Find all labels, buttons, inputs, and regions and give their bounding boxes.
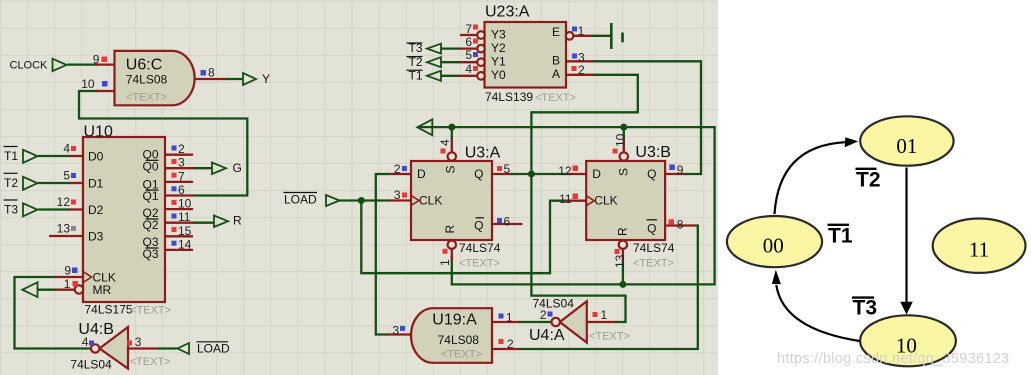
pin state square U4:B 3: [127, 341, 132, 346]
pin 2 U3:A D: [389, 173, 411, 175]
svg-text:4: 4: [465, 62, 472, 76]
pin 7 U23 Y3: [460, 34, 477, 36]
svg-text:U4:A: U4:A: [529, 327, 565, 344]
svg-text:<TEXT>: <TEXT>: [589, 331, 630, 343]
pin 9 U3:B Q: [665, 173, 684, 175]
terminal LOAD arrow (bottom): [178, 343, 190, 354]
svg-text:Y3: Y3: [491, 27, 506, 41]
pin 10 U10 Q2: [165, 208, 193, 210]
pin 5 U23 Y1: [460, 61, 477, 63]
svg-text:B: B: [552, 53, 560, 67]
svg-text:3: 3: [392, 323, 399, 337]
U23 Y2 bubble: [477, 45, 485, 53]
pin state square U3:B 12: [573, 166, 579, 172]
svg-text:Q2: Q2: [142, 218, 158, 232]
pin state square U23 4: [473, 66, 478, 71]
wire branch to U3:A S pin: [451, 127, 453, 141]
pin 3 U23 B: [567, 60, 595, 62]
wire arrow 10 to 00: [776, 285, 859, 341]
U3:B CLK edge symbol: [586, 196, 594, 206]
U23 E bubble: [566, 32, 574, 40]
wire U4:B output to U10 CLK: [15, 277, 92, 349]
svg-text:1: 1: [578, 24, 585, 38]
svg-text:74LS04: 74LS04: [70, 357, 112, 371]
terminal R arrow: [214, 216, 228, 228]
wire U10 Q1bar feedback to U6:C pin 10: [79, 91, 247, 196]
pin 2 U10 Q0: [165, 154, 193, 156]
terminal T3bar arrow: [427, 44, 441, 54]
pin 1 U3:A R: [451, 249, 453, 262]
svg-text:2: 2: [178, 142, 185, 156]
pin state square U3:A 1: [443, 249, 448, 254]
U4:A output bubble: [552, 318, 560, 326]
pin 14 U10 Q3bar: [165, 249, 193, 251]
wire net A: U23 A to U3:A Q and U4:A input: [531, 75, 637, 322]
svg-text:74LS175: 74LS175: [85, 303, 133, 317]
pin state square U10 4: [71, 146, 76, 151]
U10 MR bubble: [75, 285, 83, 293]
svg-text:14: 14: [178, 237, 192, 251]
junction node S net U3:A: [448, 124, 455, 131]
pin 8 U6:C: [195, 78, 227, 80]
svg-text:1: 1: [438, 259, 452, 266]
wire T3 to D2: [38, 208, 70, 210]
svg-text:T2: T2: [4, 176, 18, 190]
svg-text:U3:A: U3:A: [465, 145, 501, 162]
pin state square U3:A 4: [441, 149, 446, 154]
terminal LOAD arrow (mid): [326, 195, 340, 206]
svg-text:Y0: Y0: [491, 68, 506, 82]
node state 11 ellipse: [933, 219, 1026, 273]
svg-text:8: 8: [677, 218, 684, 232]
pin state square U23 7: [473, 25, 478, 30]
pin state square U23 6: [473, 39, 478, 44]
wire CLOCK to U6:C pin 9: [67, 63, 98, 65]
pin 2 U23 A: [567, 74, 595, 76]
svg-text:6: 6: [178, 183, 185, 197]
pin state square U19 2: [499, 339, 504, 344]
svg-text:<TEXT>: <TEXT>: [633, 258, 674, 270]
U4:A inverter body mirrored: [560, 301, 587, 342]
svg-text:D0: D0: [88, 149, 104, 163]
svg-text:<TEXT>: <TEXT>: [130, 305, 171, 317]
svg-text:15: 15: [178, 224, 192, 238]
pin state square U3:B 10: [613, 149, 618, 154]
terminal arrow S/R net: [417, 119, 432, 135]
svg-text:13: 13: [613, 254, 627, 268]
pin 3 U4:B input: [128, 347, 157, 349]
svg-text:R: R: [233, 214, 242, 228]
op-amp U6:C AND gate body: [115, 51, 195, 105]
pin 1 U19:A input: [492, 321, 520, 323]
svg-text:Q: Q: [647, 222, 656, 236]
pin state square U10 14: [172, 241, 177, 246]
wire U23 E to ground: [590, 35, 611, 37]
svg-text:D: D: [417, 167, 426, 181]
pin state square U10 9: [72, 268, 78, 274]
pin state square U10 7: [172, 173, 177, 178]
svg-text:4: 4: [438, 139, 452, 146]
terminal Y arrow: [243, 73, 256, 85]
svg-text:<TEXT>: <TEXT>: [441, 349, 482, 361]
pin state square U4:A 1: [593, 312, 598, 317]
svg-text:T3: T3: [4, 202, 18, 216]
svg-text:D2: D2: [88, 203, 104, 217]
wire U19:A output to U3:A D: [376, 174, 389, 335]
wire branch to U3:B R pin: [622, 261, 624, 284]
pin 13 U3:B R: [622, 249, 624, 262]
svg-text:T2: T2: [856, 169, 881, 192]
svg-text:U3:B: U3:B: [635, 144, 671, 161]
svg-text:U19:A: U19:A: [432, 312, 477, 329]
terminal G arrow: [212, 163, 226, 175]
svg-text:CLOCK: CLOCK: [10, 59, 49, 71]
wire MR terminal: [37, 289, 56, 291]
pin 1 U10 MR: [55, 289, 75, 291]
wire U23 Y0 to T1bar: [441, 75, 461, 77]
svg-text:11: 11: [559, 192, 572, 206]
ground symbol: [610, 23, 613, 49]
svg-text:6: 6: [504, 215, 511, 229]
svg-text:<TEXT>: <TEXT>: [459, 258, 500, 270]
junction node Q5/A net: [528, 171, 535, 178]
svg-text:1: 1: [64, 277, 71, 291]
svg-text:10: 10: [178, 197, 192, 211]
pin state square U10 5: [71, 173, 76, 178]
U23 Y1 bubble: [477, 58, 485, 66]
svg-text:5: 5: [465, 48, 472, 62]
pin state square U4:B 4: [89, 341, 94, 346]
U23 Y3 bubble: [477, 31, 485, 39]
U3:A S bubble: [448, 152, 456, 160]
svg-text:G: G: [233, 161, 242, 175]
pin state square U19 1: [499, 314, 504, 319]
svg-text:https://blog.csdn.net/qq_35936: https://blog.csdn.net/qq_35936123: [777, 351, 1009, 367]
terminal CLOCK arrow: [53, 59, 67, 71]
pin 7 U10 Q1: [165, 181, 193, 183]
svg-text:<TEXT>: <TEXT>: [535, 92, 576, 104]
U19:A AND gate body mirrored: [411, 308, 492, 363]
svg-text:6: 6: [465, 35, 472, 49]
pin state square U10 13: [71, 226, 76, 231]
svg-text:2: 2: [540, 308, 547, 322]
pin 6 U3:A Qbar: [492, 223, 522, 225]
svg-text:9: 9: [93, 53, 100, 67]
svg-text:74LS74: 74LS74: [459, 241, 501, 255]
pin state square U10 6: [172, 186, 177, 191]
terminal T2 arrow: [23, 177, 37, 190]
wire branch to U3:B S pin: [623, 127, 625, 141]
pin state square U10 1: [73, 281, 79, 287]
U3:A R bubble: [448, 241, 456, 249]
svg-text:T1: T1: [4, 149, 18, 163]
svg-text:10: 10: [81, 77, 95, 91]
pin state square U3:A 3: [402, 193, 407, 198]
pin 11 U10 Q2bar: [165, 222, 193, 224]
svg-text:Y2: Y2: [491, 41, 506, 55]
svg-text:74LS74: 74LS74: [633, 241, 675, 255]
svg-text:D3: D3: [88, 229, 104, 243]
pin state square U23 2: [572, 66, 577, 71]
svg-text:D: D: [592, 167, 601, 181]
pin state square U19 3: [400, 326, 405, 331]
pin state square U6:C 10: [102, 81, 108, 87]
svg-text:9: 9: [64, 264, 71, 278]
pin state square U6:C 9: [102, 57, 108, 63]
svg-text:2: 2: [394, 162, 401, 176]
svg-text:5: 5: [63, 169, 70, 183]
svg-text:74LS08: 74LS08: [438, 333, 480, 347]
pin state square U3:B 13: [615, 249, 620, 254]
svg-text:A: A: [552, 67, 560, 81]
svg-text:Q: Q: [647, 167, 656, 181]
svg-text:1: 1: [506, 311, 513, 325]
pin 15 U10 Q3: [165, 235, 193, 237]
wire net S/R: arrow terminal along S and R pins: [418, 127, 715, 284]
pin state square U10 15: [172, 227, 177, 232]
U10 74LS175 body: [83, 137, 165, 302]
svg-text:4: 4: [82, 335, 89, 349]
svg-text:E: E: [552, 25, 560, 39]
wire net B: U23 B to U3:B Q: [592, 61, 701, 174]
pin 10 U6:C: [96, 90, 115, 92]
svg-text:LOAD: LOAD: [197, 342, 230, 356]
svg-text:S: S: [444, 165, 458, 173]
junction node R net U3:B: [619, 281, 626, 288]
pin state square U6:C 8: [201, 70, 207, 76]
pin 9 U10 CLK: [55, 276, 83, 278]
svg-text:00: 00: [763, 234, 784, 258]
pin 1 U23 E: [573, 35, 592, 37]
svg-text:MR: MR: [93, 283, 112, 297]
svg-text:R: R: [443, 225, 457, 234]
svg-text:10: 10: [614, 133, 628, 147]
schematic background: [0, 0, 718, 375]
U3:A 74LS74 body: [411, 161, 492, 240]
svg-text:11: 11: [969, 238, 989, 262]
U3:A CLK edge symbol: [411, 196, 419, 206]
svg-text:Y1: Y1: [491, 55, 506, 69]
svg-text:R: R: [616, 227, 630, 236]
pin state square U23 3: [572, 54, 577, 59]
svg-text:5: 5: [504, 162, 511, 176]
svg-text:4: 4: [63, 142, 70, 156]
pin state square U23 1: [572, 27, 577, 32]
pin 2 U19:A input: [492, 348, 520, 350]
svg-text:U6:C: U6:C: [126, 56, 162, 73]
svg-text:13: 13: [57, 222, 71, 236]
wire U4:B input to LOAD: [157, 347, 178, 349]
wire LOAD to U3:A CLK: [340, 199, 391, 201]
pin 1 U4:A input: [587, 321, 615, 323]
svg-text:2: 2: [578, 63, 585, 77]
U3:B S bubble: [620, 152, 628, 160]
svg-text:D1: D1: [88, 176, 104, 190]
pin state square U3:A 5: [497, 166, 502, 171]
svg-text:3: 3: [178, 156, 185, 170]
wire U3:A Q to U3:B D: [511, 173, 566, 175]
pin state square U10 3: [172, 159, 177, 164]
svg-text:CLK: CLK: [594, 194, 617, 208]
node state 00 ellipse: [727, 216, 822, 267]
wire U3:B Qbar to U19:A pin 2: [520, 226, 698, 350]
U23 Y0 bubble: [477, 72, 485, 80]
pin 6 U23 Y2: [460, 47, 477, 49]
svg-text:11: 11: [178, 210, 191, 224]
pin state square U3:A 6: [497, 218, 502, 223]
svg-text:Y: Y: [262, 72, 270, 86]
pin 3 U3:A CLK: [389, 199, 411, 201]
pin 12 U10 D2: [69, 208, 83, 210]
U10 CLK edge symbol: [83, 272, 92, 283]
svg-text:U23:A: U23:A: [485, 4, 530, 21]
svg-text:01: 01: [896, 134, 917, 158]
wire U23 Y2 to T3bar: [441, 47, 461, 49]
wire U23 Y1 to T2bar: [441, 61, 461, 63]
wire T1 to D0: [38, 155, 70, 157]
pin state square U3:B 9: [669, 165, 675, 171]
pin 8 U3:B Qbar: [665, 224, 695, 226]
pin 9 U6:C: [96, 63, 115, 65]
terminal T1 arrow: [23, 150, 37, 163]
terminal T3 arrow: [23, 203, 37, 216]
svg-text:T1: T1: [828, 225, 853, 248]
svg-text:7: 7: [178, 169, 185, 183]
svg-text:3: 3: [394, 188, 401, 202]
wire T2 to D1: [38, 182, 70, 184]
U3:B 74LS74 body: [586, 161, 665, 240]
svg-text:Q: Q: [474, 219, 483, 233]
pin state square U4:A 2: [548, 312, 553, 317]
pin state square U10 12: [71, 200, 76, 205]
pin state square U10 2: [172, 146, 177, 151]
U3:B R bubble: [619, 241, 627, 249]
svg-text:<TEXT>: <TEXT>: [126, 92, 167, 104]
svg-text:S: S: [617, 168, 631, 176]
svg-text:CLK: CLK: [419, 194, 442, 208]
pin 3 U10 Q0bar: [165, 167, 193, 169]
svg-text:74LS04: 74LS04: [533, 297, 575, 311]
U4:B output bubble: [91, 344, 99, 352]
svg-text:T3: T3: [853, 297, 878, 320]
wire LOAD branch to U3:B CLK: [361, 201, 566, 274]
pin 4 U3:A S: [451, 140, 453, 153]
pin 4 U23 Y0: [460, 75, 477, 77]
wire arrow 00 to 01: [775, 142, 846, 214]
svg-text:12: 12: [558, 164, 572, 178]
pin 5 U3:A Q: [492, 173, 512, 175]
junction node LOAD/CLK: [358, 197, 365, 204]
pin 5 U10 D1: [69, 182, 83, 184]
terminal MR arrow: [22, 282, 37, 297]
pin state square U10 10: [172, 200, 177, 205]
svg-text:12: 12: [57, 195, 71, 209]
svg-text:74LS08: 74LS08: [126, 72, 168, 86]
svg-text:U10: U10: [84, 124, 113, 141]
wire U4:A output to U19:A pin 1: [519, 321, 552, 323]
node state 01 ellipse: [860, 116, 953, 165]
svg-text:74LS139: 74LS139: [485, 90, 533, 104]
pin state square U10 11: [172, 214, 177, 219]
U23:A 74LS139 body: [485, 22, 567, 88]
pin 12 U3:B D: [565, 173, 586, 175]
svg-text:3: 3: [135, 335, 142, 349]
pin 6 U10 Q1bar: [165, 194, 193, 196]
node state 10 ellipse: [860, 315, 956, 366]
svg-text:Q1: Q1: [142, 189, 158, 203]
pin 4 U10 D0: [69, 155, 83, 157]
svg-text:LOAD: LOAD: [284, 193, 317, 207]
wire Q0bar to G terminal: [193, 167, 212, 169]
wire Q2bar to R terminal: [193, 222, 214, 224]
pin state square U23 5: [473, 52, 478, 57]
svg-text:7: 7: [465, 22, 472, 36]
U4:B inverter body mirrored: [100, 327, 129, 369]
svg-text:Q3: Q3: [142, 247, 158, 261]
pin state square U3:B 11: [573, 194, 579, 200]
wire arrow 01 to 10: [905, 168, 907, 303]
svg-text:Q: Q: [474, 167, 483, 181]
svg-text:<TEXT>: <TEXT>: [130, 356, 171, 368]
pin 10 U3:B S: [623, 140, 625, 153]
pin 11 U3:B CLK: [565, 200, 586, 202]
pin state square U3:B 8: [669, 219, 675, 225]
pin 3 U19:A output: [388, 333, 412, 335]
svg-text:1: 1: [601, 308, 608, 322]
svg-text:9: 9: [677, 163, 684, 177]
svg-text:8: 8: [208, 66, 215, 80]
wire U6:C pin 8 to Y terminal: [226, 78, 243, 80]
svg-text:Q0: Q0: [142, 160, 158, 174]
terminal T2bar arrow: [427, 57, 441, 67]
junction node S net U3:B: [620, 124, 627, 131]
terminal T1bar arrow: [427, 71, 441, 81]
svg-text:2: 2: [507, 337, 514, 351]
pin 13 U10 D3: [49, 235, 83, 237]
pin state square U3:A 2: [402, 166, 407, 171]
